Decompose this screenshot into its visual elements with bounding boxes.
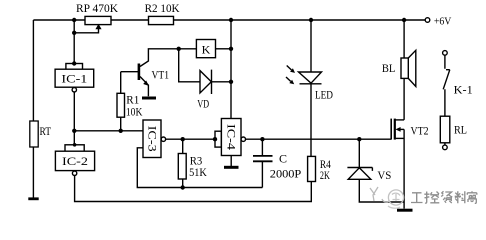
svg-text:RT: RT: [40, 124, 52, 138]
svg-text:+6V: +6V: [434, 17, 452, 28]
svg-text:IC-4: IC-4: [225, 124, 239, 150]
svg-text:K: K: [202, 42, 211, 56]
svg-text:2000P: 2000P: [270, 167, 302, 181]
svg-text:IC-3: IC-3: [146, 126, 160, 152]
svg-text:VT1: VT1: [152, 68, 170, 82]
svg-text:VS: VS: [377, 168, 391, 182]
svg-text:VT2: VT2: [411, 123, 429, 137]
svg-text:VD: VD: [197, 97, 209, 111]
svg-text:RL: RL: [454, 123, 467, 137]
svg-text:LED: LED: [315, 87, 333, 101]
svg-text:2K: 2K: [320, 168, 330, 182]
svg-text:IC-2: IC-2: [62, 154, 88, 168]
svg-text:10K: 10K: [126, 104, 143, 118]
svg-text:51K: 51K: [189, 165, 207, 179]
svg-text:C: C: [279, 151, 287, 165]
svg-text:BL: BL: [382, 61, 396, 75]
svg-text:R2 10K: R2 10K: [145, 1, 180, 15]
svg-text:RP 470K: RP 470K: [76, 1, 118, 15]
svg-text:IC-1: IC-1: [61, 72, 87, 86]
svg-text:K-1: K-1: [454, 82, 473, 96]
